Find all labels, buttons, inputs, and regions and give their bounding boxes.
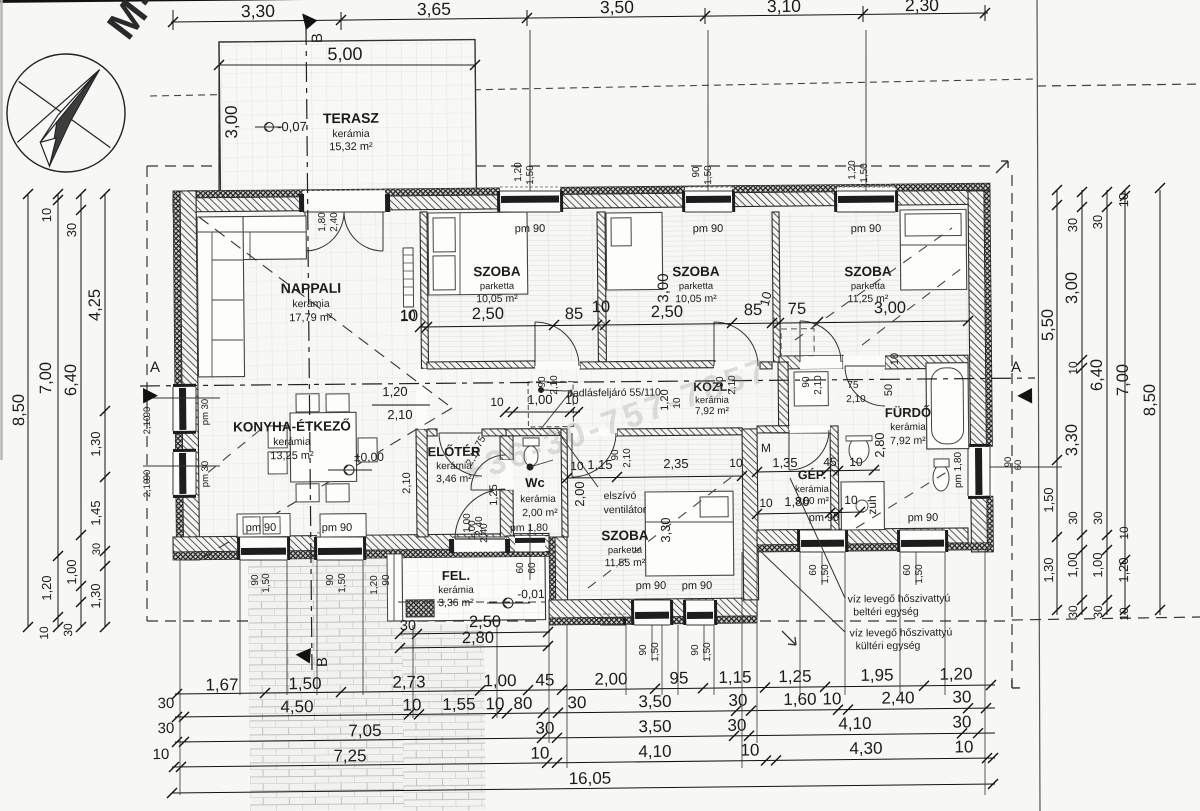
svg-text:1,00: 1,00 <box>527 392 552 407</box>
svg-text:kerámia: kerámia <box>520 494 556 505</box>
svg-text:30: 30 <box>1065 218 1080 233</box>
svg-text:90: 90 <box>801 376 812 388</box>
bed szoba2 <box>606 212 663 290</box>
svg-text:30: 30 <box>61 623 75 637</box>
svg-text:1,80: 1,80 <box>784 494 809 509</box>
wall szoba1/szoba2 <box>597 212 606 362</box>
svg-text:10: 10 <box>530 744 549 763</box>
svg-text:1,15: 1,15 <box>587 457 612 472</box>
svg-text:30: 30 <box>1090 215 1105 230</box>
svg-text:5,50: 5,50 <box>1039 309 1057 341</box>
szoba3 nook dashes <box>781 329 814 356</box>
svg-text:pm 90: pm 90 <box>693 223 724 235</box>
svg-text:10: 10 <box>1116 193 1131 208</box>
floor szoba1 <box>427 210 598 362</box>
exterior wall szoba-bottom left <box>555 537 568 618</box>
svg-text:1,30: 1,30 <box>88 583 103 608</box>
svg-text:pm 90: pm 90 <box>515 223 546 235</box>
svg-text:2,00 m²: 2,00 m² <box>522 507 558 519</box>
svg-text:30: 30 <box>64 223 79 238</box>
svg-text:10: 10 <box>1117 607 1131 621</box>
svg-text:1,00: 1,00 <box>483 671 516 690</box>
svg-text:45: 45 <box>535 670 554 689</box>
svg-text:3,00: 3,00 <box>1063 272 1081 304</box>
svg-text:10: 10 <box>1066 361 1080 375</box>
svg-text:beltéri egység: beltéri egység <box>853 606 919 619</box>
svg-text:10: 10 <box>822 689 841 708</box>
svg-text:3,65: 3,65 <box>417 0 451 19</box>
tub furdo <box>926 363 969 449</box>
door eloter/konyha opening <box>416 369 428 429</box>
fel chains 30/2,50 + 2,80 <box>400 632 550 634</box>
svg-text:1,67: 1,67 <box>205 675 238 694</box>
nappali dashed diagonals <box>199 215 452 411</box>
svg-text:10: 10 <box>849 455 863 469</box>
door szoba2 <box>714 362 759 369</box>
wall szoba3 south <box>779 355 843 369</box>
svg-text:30: 30 <box>952 712 971 731</box>
svg-text:17,79 m²: 17,79 m² <box>289 312 333 324</box>
svg-text:1,30: 1,30 <box>88 431 103 456</box>
svg-text:2,40: 2,40 <box>479 523 490 543</box>
floor szoba3 <box>779 210 969 356</box>
svg-text:pm 90: pm 90 <box>851 223 882 235</box>
furdo diagonal dashes <box>855 470 950 528</box>
svg-text:30: 30 <box>1066 511 1080 525</box>
svg-text:75: 75 <box>788 300 807 318</box>
svg-text:5,00: 5,00 <box>327 44 362 64</box>
svg-text:1,20: 1,20 <box>513 162 524 182</box>
bed szoba1 <box>428 212 528 295</box>
svg-text:2,35: 2,35 <box>663 456 688 471</box>
szoba bottom diagonal dashes <box>587 472 739 588</box>
door eloter from kozl <box>439 433 482 477</box>
svg-text:1,25: 1,25 <box>488 484 500 506</box>
svg-text:7,92 m²: 7,92 m² <box>890 435 926 447</box>
svg-text:1,50: 1,50 <box>288 674 321 693</box>
exterior wall szoba-bottom bottom <box>549 598 757 618</box>
wall wc right / szoba left upper <box>561 429 568 537</box>
witness lines bottom <box>178 560 183 795</box>
svg-text:1,20: 1,20 <box>382 384 407 399</box>
svg-text:3,50: 3,50 <box>638 692 671 711</box>
svg-text:7,00: 7,00 <box>1114 364 1132 396</box>
floor nappali+konyha (ceramic grid) <box>196 210 423 537</box>
radiator nappali <box>403 248 414 307</box>
page vertical rule right <box>1032 0 1045 811</box>
left chains <box>24 194 32 627</box>
svg-text:4,50: 4,50 <box>280 697 313 716</box>
wall wc bottom w window <box>506 536 549 552</box>
svg-text:10: 10 <box>39 208 54 223</box>
svg-text:3,00: 3,00 <box>874 299 906 317</box>
svg-text:2,73: 2,73 <box>392 672 425 691</box>
svg-text:10: 10 <box>759 496 773 510</box>
top dimension chain <box>171 13 988 22</box>
door szoba3 <box>800 356 842 369</box>
svg-text:1,50: 1,50 <box>525 165 536 185</box>
svg-text:30: 30 <box>1091 511 1105 525</box>
svg-text:zuh: zuh <box>865 495 879 514</box>
svg-text:kerámia: kerámia <box>273 436 311 448</box>
floor kozl <box>427 366 779 429</box>
svg-text:2,50: 2,50 <box>651 303 683 321</box>
kitchen counter <box>237 513 290 537</box>
svg-text:1,20: 1,20 <box>39 575 54 600</box>
watermark phone <box>458 351 775 492</box>
svg-text:1,20: 1,20 <box>1116 557 1131 582</box>
bed szoba bottom <box>645 491 734 576</box>
attic dim 10 1,00 10 <box>505 411 580 412</box>
floor furdo <box>838 368 970 530</box>
svg-text:75: 75 <box>847 380 859 391</box>
svg-text:FEL.: FEL. <box>442 568 470 583</box>
right chains <box>1053 190 1061 615</box>
svg-text:30: 30 <box>952 687 971 706</box>
svg-text:10: 10 <box>729 456 743 470</box>
svg-text:2,30: 2,30 <box>905 0 940 15</box>
window W3 top (1,20) <box>837 186 895 212</box>
svg-text:pm 90: pm 90 <box>908 512 939 524</box>
shower tray <box>841 482 884 530</box>
svg-text:8,50: 8,50 <box>1141 384 1159 416</box>
svg-text:60: 60 <box>808 564 819 576</box>
svg-text:90: 90 <box>381 574 392 586</box>
svg-text:kerámia: kerámia <box>332 128 370 140</box>
svg-text:-0,01: -0,01 <box>517 587 545 601</box>
svg-text:1,00: 1,00 <box>64 559 79 584</box>
svg-text:1,35: 1,35 <box>772 455 797 470</box>
door gep/M <box>789 426 830 433</box>
svg-text:1,20: 1,20 <box>847 160 858 180</box>
svg-text:2,10: 2,10 <box>387 407 412 422</box>
svg-text:2,00: 2,00 <box>572 481 587 506</box>
svg-text:TERASZ: TERASZ <box>323 110 380 127</box>
svg-text:3,30: 3,30 <box>241 1 276 21</box>
svg-text:6,40: 6,40 <box>1088 359 1106 391</box>
svg-text:10: 10 <box>37 626 51 640</box>
svg-text:ventilátor: ventilátor <box>604 504 647 516</box>
compass rose <box>6 53 125 172</box>
svg-text:parketta: parketta <box>851 281 886 292</box>
svg-text:1,25: 1,25 <box>778 667 811 686</box>
fel left rail <box>387 554 403 621</box>
terrace dimension 5,00 <box>219 63 475 68</box>
svg-text:3,00: 3,00 <box>222 105 241 138</box>
svg-text:10: 10 <box>153 746 170 763</box>
svg-text:85: 85 <box>565 305 584 323</box>
svg-text:7,25: 7,25 <box>333 746 366 765</box>
svg-text:8,50: 8,50 <box>10 394 28 426</box>
svg-text:±0,00: ±0,00 <box>354 450 384 464</box>
svg-text:1,45: 1,45 <box>88 500 103 525</box>
dining table <box>290 412 357 482</box>
svg-text:SZOBA: SZOBA <box>844 264 892 279</box>
exterior wall bottom-right <box>757 528 968 545</box>
basin furdo <box>849 437 869 463</box>
bottom chains <box>175 685 995 694</box>
svg-text:90: 90 <box>691 166 702 178</box>
wall szoba bottom top <box>617 428 742 436</box>
svg-text:M: M <box>761 441 771 455</box>
fel dashed line <box>398 601 545 604</box>
svg-text:4,25: 4,25 <box>86 289 104 321</box>
window W10 szoba bottom <box>634 600 670 629</box>
svg-text:10: 10 <box>889 353 901 365</box>
terrace door arcs <box>305 212 345 251</box>
ventilator leader + wc drain dot <box>558 432 598 488</box>
svg-text:10: 10 <box>844 493 858 507</box>
svg-text:2,50: 2,50 <box>472 305 504 323</box>
svg-text:10: 10 <box>485 694 504 713</box>
floor szoba2 <box>605 210 773 362</box>
washer M <box>794 372 828 406</box>
svg-text:30: 30 <box>567 693 586 712</box>
wall szoba2/szoba3 <box>772 212 780 362</box>
svg-text:2,10: 2,10 <box>142 479 153 498</box>
corner rotated M-1 glyph <box>98 0 185 47</box>
window W13 furdo bottom <box>900 530 945 556</box>
right window axis <box>990 466 1062 467</box>
svg-text:2,10: 2,10 <box>142 416 153 435</box>
exterior wall szoba-bottom right / M left <box>742 429 759 600</box>
svg-text:KONYHA-ÉTKEZŐ: KONYHA-ÉTKEZŐ <box>233 418 351 434</box>
floor eloter <box>427 435 507 537</box>
svg-text:kerámia: kerámia <box>438 585 474 596</box>
svg-text:30: 30 <box>400 618 416 634</box>
svg-text:1,50: 1,50 <box>337 573 348 593</box>
svg-text:víz levegő hőszivattyú: víz levegő hőszivattyú <box>850 627 953 640</box>
svg-text:3,50: 3,50 <box>638 717 671 736</box>
svg-text:10: 10 <box>592 298 611 316</box>
window W10 szoba bottom a <box>625 614 627 625</box>
door szoba1 <box>535 362 580 369</box>
svg-text:pm 90: pm 90 <box>246 522 277 534</box>
door wc <box>500 460 513 490</box>
svg-text:2,80: 2,80 <box>872 432 887 457</box>
svg-text:6,40: 6,40 <box>62 364 80 396</box>
svg-text:pm 30: pm 30 <box>200 399 211 426</box>
svg-text:1,15: 1,15 <box>718 668 751 687</box>
window W5 left <box>169 452 196 495</box>
svg-text:1,50: 1,50 <box>261 573 272 593</box>
svg-text:60: 60 <box>515 562 526 574</box>
svg-text:parketta: parketta <box>679 281 714 292</box>
wc toilet <box>524 446 538 466</box>
svg-text:3,00: 3,00 <box>655 273 672 302</box>
svg-text:10: 10 <box>1117 526 1131 540</box>
svg-text:kerámia: kerámia <box>292 298 330 310</box>
svg-text:10: 10 <box>400 307 416 323</box>
floor wc <box>513 436 562 536</box>
svg-text:pm 1,80: pm 1,80 <box>510 522 548 534</box>
svg-text:30: 30 <box>1066 605 1080 619</box>
svg-text:10,05 m²: 10,05 m² <box>476 293 518 305</box>
svg-text:90: 90 <box>250 574 261 586</box>
window W9 wc bottom small <box>515 536 545 552</box>
svg-text:3,36 m²: 3,36 m² <box>438 597 474 609</box>
svg-text:95: 95 <box>669 669 688 688</box>
exterior wall left <box>180 191 200 560</box>
svg-text:pm 90: pm 90 <box>809 512 840 524</box>
window W8 bottom konyha <box>317 533 363 560</box>
toilet furdo <box>933 465 949 491</box>
konyha second dashes <box>205 430 261 475</box>
svg-text:50: 50 <box>883 384 895 396</box>
svg-text:4,10: 4,10 <box>638 742 671 761</box>
svg-text:SZOBA: SZOBA <box>473 264 521 279</box>
svg-text:90: 90 <box>325 574 336 586</box>
svg-text:10: 10 <box>954 737 973 756</box>
window W4 left <box>169 387 196 431</box>
svg-text:1,50: 1,50 <box>820 564 831 584</box>
svg-text:1,95: 1,95 <box>860 666 893 685</box>
svg-text:A: A <box>1011 359 1021 376</box>
floor szoba bottom <box>567 434 744 600</box>
window W11 szoba bottom <box>686 600 714 629</box>
svg-text:90: 90 <box>537 376 548 388</box>
svg-text:16,05: 16,05 <box>569 769 612 788</box>
svg-text:1,55: 1,55 <box>442 695 475 714</box>
svg-text:10: 10 <box>740 740 759 759</box>
svg-text:pm 90: pm 90 <box>636 580 667 592</box>
svg-text:1,00: 1,00 <box>467 520 478 540</box>
wall nappali/szoba1 <box>420 212 429 369</box>
svg-text:3,10: 3,10 <box>767 0 802 16</box>
svg-text:B: B <box>309 33 326 43</box>
brick walkway <box>248 559 404 811</box>
svg-text:30: 30 <box>1091 605 1105 619</box>
page top black edge <box>0 0 1200 3</box>
svg-text:1,00: 1,00 <box>1065 552 1080 577</box>
svg-text:4,10: 4,10 <box>838 714 871 733</box>
svg-text:30: 30 <box>158 720 175 737</box>
page left edge line <box>0 0 6 460</box>
window W1 top (1,20) <box>500 186 560 212</box>
svg-text:parketta: parketta <box>480 281 515 292</box>
svg-text:kültéri egység: kültéri egység <box>856 640 921 653</box>
svg-text:SZOBA: SZOBA <box>672 264 720 279</box>
floor M + gep <box>757 368 832 530</box>
svg-text:A: A <box>150 359 160 376</box>
terrace slab <box>219 40 476 192</box>
section marker B top <box>300 13 318 31</box>
svg-text:7,05: 7,05 <box>348 721 381 740</box>
door furdo <box>843 356 885 369</box>
svg-text:parketta: parketta <box>608 545 643 556</box>
bed szoba3 <box>900 209 967 290</box>
svg-text:15,32 m²: 15,32 m² <box>329 141 373 153</box>
svg-text:7,00: 7,00 <box>37 362 55 394</box>
svg-text:10: 10 <box>565 393 579 407</box>
window W7 bottom konyha <box>240 533 287 560</box>
wall wc/eloter top <box>506 428 561 436</box>
wall M/gep divider line <box>757 432 830 433</box>
wall wc left <box>500 436 513 460</box>
svg-text:13,25 m²: 13,25 m² <box>270 450 314 462</box>
svg-text:Wc: Wc <box>525 475 545 490</box>
svg-text:NAPPALI: NAPPALI <box>281 280 342 297</box>
svg-text:2,10: 2,10 <box>846 394 866 405</box>
exterior wall right <box>968 191 987 552</box>
terrace double door opening <box>303 190 385 212</box>
exterior wall bottom-left <box>173 533 549 552</box>
svg-text:3,50: 3,50 <box>600 0 635 17</box>
svg-text:3,30: 3,30 <box>658 517 673 542</box>
svg-text:10: 10 <box>570 459 584 473</box>
roof overhang dashed envelope <box>147 165 217 166</box>
wall corridor north <box>427 361 535 369</box>
svg-text:B: B <box>314 657 331 667</box>
svg-text:1,20: 1,20 <box>369 575 380 595</box>
wall konyha/eloter <box>416 429 428 537</box>
window W12 gep bottom <box>800 530 845 556</box>
svg-text:60: 60 <box>527 562 538 574</box>
section line B-B <box>306 25 312 670</box>
padlasfeljaro leader dot <box>538 387 544 393</box>
svg-text:SZOBA: SZOBA <box>601 528 649 543</box>
wall corridor south segment M <box>757 426 789 433</box>
szoba row dim chain <box>420 321 968 327</box>
svg-text:4,30: 4,30 <box>849 739 882 758</box>
section line A-A <box>140 377 1035 386</box>
svg-text:1,00: 1,00 <box>1090 552 1105 577</box>
svg-text:90: 90 <box>638 644 649 656</box>
svg-text:1,50: 1,50 <box>702 642 713 662</box>
svg-text:2,40: 2,40 <box>881 688 914 707</box>
svg-text:1,50: 1,50 <box>1041 487 1056 512</box>
svg-text:pm 90: pm 90 <box>682 580 713 592</box>
entrance door <box>453 536 506 552</box>
svg-text:1,50: 1,50 <box>859 163 870 183</box>
svg-text:FÜRDŐ: FÜRDŐ <box>885 405 931 420</box>
svg-text:1,30: 1,30 <box>1041 557 1056 582</box>
svg-text:kerámia: kerámia <box>890 422 926 433</box>
padlasfeljaro hatch <box>528 382 573 427</box>
svg-text:2,10: 2,10 <box>813 375 824 395</box>
svg-text:2,00: 2,00 <box>594 669 627 688</box>
svg-text:2,10: 2,10 <box>401 472 413 494</box>
wall kozl/M divider <box>778 362 789 426</box>
szoba bottom top chain <box>567 476 742 478</box>
fel landing hatch <box>406 600 434 617</box>
svg-text:1,50: 1,50 <box>650 642 661 662</box>
floor fel <box>402 556 546 621</box>
svg-text:30: 30 <box>91 543 103 555</box>
svg-text:80: 80 <box>513 694 532 713</box>
svg-text:3,30: 3,30 <box>1063 424 1081 456</box>
svg-text:60: 60 <box>1013 460 1024 471</box>
szoba3 diagonal dashes <box>794 228 953 340</box>
window W6 right (pm 1,80) <box>968 447 994 496</box>
svg-text:60: 60 <box>902 564 913 576</box>
svg-text:víz levegő hőszivattyú: víz levegő hőszivattyú <box>848 593 951 606</box>
svg-text:pm 1,80: pm 1,80 <box>953 451 964 488</box>
svg-text:pm 90: pm 90 <box>322 522 353 534</box>
svg-text:30: 30 <box>158 695 175 712</box>
svg-text:30: 30 <box>728 691 747 710</box>
svg-text:1,50: 1,50 <box>914 564 925 584</box>
svg-text:2,80: 2,80 <box>462 629 494 647</box>
wall gep/zuh <box>830 426 839 530</box>
svg-text:2,10: 2,10 <box>622 448 633 468</box>
door szoba-bottom <box>572 429 617 436</box>
szoba1 window verticals <box>528 30 531 191</box>
svg-text:pm 30: pm 30 <box>200 461 211 488</box>
exterior wall top <box>173 190 990 212</box>
window W2 top (90) <box>685 187 732 212</box>
sofa nappali <box>197 216 306 260</box>
